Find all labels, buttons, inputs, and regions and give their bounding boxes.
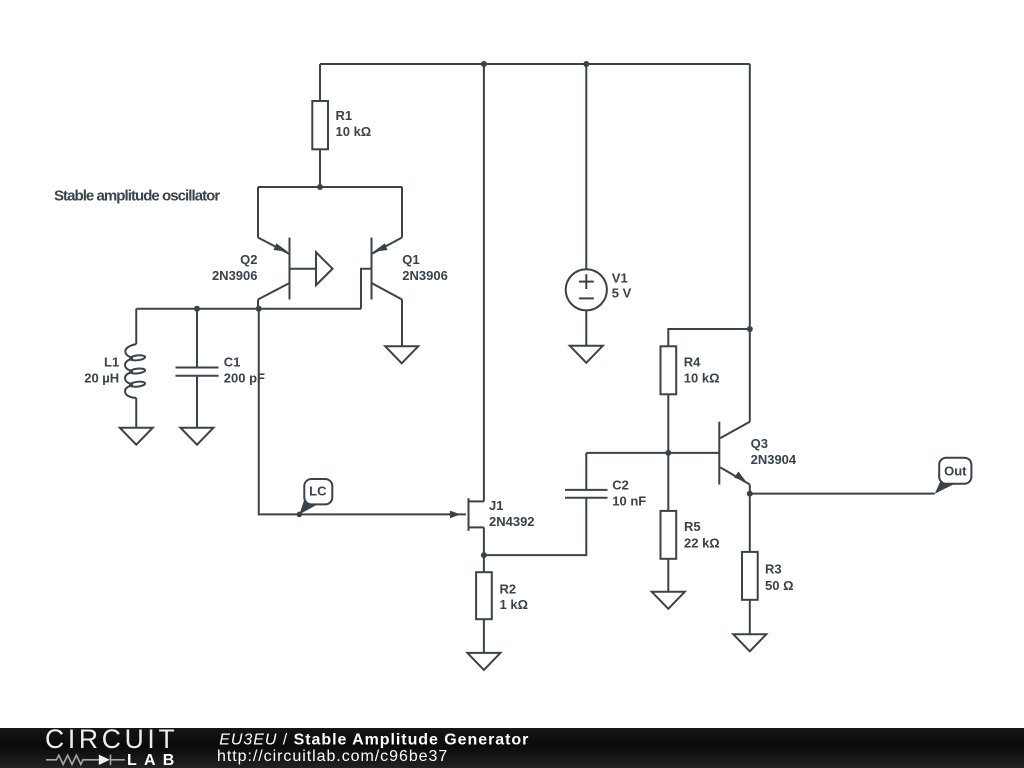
label Q3 xyxy=(751,436,797,467)
node junction J1 source / R2 / C2 wire xyxy=(481,552,487,558)
svg-text:J1: J1 xyxy=(489,498,503,513)
inductor L1 xyxy=(125,309,145,428)
wire out net xyxy=(750,493,935,495)
ground L1 xyxy=(120,428,153,445)
svg-text:Q2: Q2 xyxy=(240,252,257,267)
ground Q1 collector xyxy=(385,346,418,363)
transistor J1 xyxy=(450,498,484,555)
svg-text:1 kΩ: 1 kΩ xyxy=(500,597,529,612)
node junction C1 / tank rail xyxy=(194,306,200,312)
wire top rail xyxy=(320,63,750,65)
svg-text:5 V: 5 V xyxy=(612,285,632,300)
svg-text:2N3904: 2N3904 xyxy=(751,452,797,467)
wire R1 top lead xyxy=(319,64,321,101)
svg-text:V1: V1 xyxy=(612,271,628,286)
ground R2 xyxy=(467,653,500,670)
svg-text:50 Ω: 50 Ω xyxy=(765,578,794,593)
node junction top rail / J1 drain xyxy=(481,61,487,67)
resistor R4 xyxy=(661,329,750,453)
svg-text:C1: C1 xyxy=(224,354,241,369)
ground R5 xyxy=(652,592,685,609)
svg-text:Stable amplitude oscillator: Stable amplitude oscillator xyxy=(54,188,220,205)
capacitor C2 xyxy=(565,453,608,498)
wire LC tank rail xyxy=(136,308,361,310)
resistor R3 xyxy=(742,494,758,635)
svg-text:20 µH: 20 µH xyxy=(84,370,119,385)
svg-text:Q3: Q3 xyxy=(751,436,768,451)
transistor Q2 xyxy=(258,187,333,309)
wire emitter rail xyxy=(258,186,402,188)
source V1 xyxy=(566,64,607,346)
svg-text:CIRCUIT: CIRCUIT xyxy=(45,724,178,754)
svg-text:R5: R5 xyxy=(684,519,701,534)
node junction Q3 emitter / Out / R3 xyxy=(747,491,753,497)
label R2 xyxy=(500,582,529,613)
svg-text:10 kΩ: 10 kΩ xyxy=(336,124,372,139)
label R4 xyxy=(684,354,720,385)
capacitor C1 xyxy=(176,309,219,428)
svg-text:2N3906: 2N3906 xyxy=(402,268,448,283)
wire source to C2 xyxy=(484,498,586,555)
svg-text:EU3EU / Stable Amplitude Gener: EU3EU / Stable Amplitude Generator xyxy=(219,731,529,748)
svg-text:2N3906: 2N3906 xyxy=(212,268,258,283)
label Q2 xyxy=(212,252,258,283)
transistor Q1 xyxy=(361,187,402,346)
ground V1 xyxy=(570,346,603,363)
label C1 xyxy=(224,354,265,385)
node junction base wire / R4 / R5 xyxy=(665,450,671,456)
flag LC xyxy=(299,479,332,514)
label L1 xyxy=(84,354,119,385)
node LC flag attach dot xyxy=(297,512,303,518)
label R5 xyxy=(684,519,720,550)
svg-text:22 kΩ: 22 kΩ xyxy=(684,535,720,550)
node junction right rail / R4 wire xyxy=(747,326,753,332)
node junction R1 / emitter rail xyxy=(317,184,323,190)
svg-text:10 kΩ: 10 kΩ xyxy=(684,370,720,385)
node junction Q2 collector / tank rail / gate wire xyxy=(256,306,262,312)
svg-text:LC: LC xyxy=(309,483,327,498)
transistor Q3 xyxy=(719,422,750,494)
label J1 xyxy=(489,498,535,529)
logo resistor-diode squiggle xyxy=(46,755,125,765)
ground C1 xyxy=(181,428,214,445)
svg-text:2N4392: 2N4392 xyxy=(489,514,535,529)
label V1 xyxy=(612,271,632,301)
wire right rail xyxy=(749,64,751,422)
svg-text:Out: Out xyxy=(944,464,967,479)
label Q1 xyxy=(402,252,448,283)
svg-text:R4: R4 xyxy=(684,354,701,369)
svg-text:R1: R1 xyxy=(336,108,353,123)
flag Out xyxy=(935,458,972,494)
svg-text:LAB: LAB xyxy=(127,752,181,768)
svg-text:http://circuitlab.com/c96be37: http://circuitlab.com/c96be37 xyxy=(217,748,448,765)
wire R1 bottom lead xyxy=(319,149,321,187)
svg-text:R3: R3 xyxy=(765,562,782,577)
svg-text:C2: C2 xyxy=(612,477,629,492)
label R1 xyxy=(336,108,372,139)
resistor R5 xyxy=(661,453,677,592)
label C2 xyxy=(612,477,646,508)
resistor R1 xyxy=(312,101,328,149)
wire J1 drain to top rail xyxy=(483,64,485,501)
wire gate net (LC node down + across to J1) xyxy=(259,309,466,515)
node junction top rail / V1 xyxy=(583,61,589,67)
wire C2 to Q3 base xyxy=(586,452,719,454)
svg-text:R2: R2 xyxy=(500,582,517,597)
svg-text:L1: L1 xyxy=(104,354,119,369)
ground R3 xyxy=(733,634,766,651)
svg-text:200 pF: 200 pF xyxy=(224,370,265,385)
svg-text:10 nF: 10 nF xyxy=(612,493,646,508)
svg-text:Q1: Q1 xyxy=(402,252,419,267)
label R3 xyxy=(765,562,794,593)
resistor R2 xyxy=(476,555,492,653)
